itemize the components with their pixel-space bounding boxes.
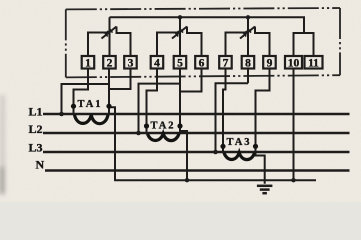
terminal 5 <box>174 56 187 70</box>
meter element 1 (voltage coil) <box>88 17 131 56</box>
voltage tap L2 to terminal 5 <box>139 84 181 133</box>
TA1 S2 tie to ground bus <box>109 105 115 180</box>
terminal 10 <box>285 56 302 70</box>
svg-text:TA3: TA3 <box>227 137 252 148</box>
wire terminal 4 to TA2 S1 <box>147 69 158 126</box>
current transformer TA2 <box>144 121 183 141</box>
svg-text:5: 5 <box>177 58 183 70</box>
svg-text:10: 10 <box>288 58 300 70</box>
wire terminal 10 down to ground bus <box>293 69 295 181</box>
svg-text:N: N <box>36 158 45 172</box>
junction dot ground bus / terminal 10 wire <box>291 178 295 182</box>
line L2 <box>29 122 350 136</box>
wire terminal 1 to TA1 S1 <box>74 69 89 105</box>
wire terminal 2 down to TA1 S2 <box>108 69 110 105</box>
line N <box>36 158 350 172</box>
terminal 9 <box>263 56 276 70</box>
voltage tap L3 to terminal 8 <box>216 83 249 152</box>
terminal 6 <box>195 56 208 70</box>
svg-text:7: 7 <box>223 58 229 70</box>
ground bus <box>114 179 316 181</box>
top voltage bus <box>110 17 305 33</box>
terminal 1 <box>82 56 95 70</box>
line L3 <box>29 140 350 154</box>
junction dot bus/element3 <box>246 15 250 19</box>
line L1 <box>29 104 350 118</box>
wire terminal 6 to TA2 S2 <box>180 69 202 92</box>
ground <box>257 186 273 193</box>
svg-text:6: 6 <box>199 58 205 70</box>
svg-text:TA1: TA1 <box>78 99 103 110</box>
current transformer TA1 <box>71 99 112 124</box>
svg-text:11: 11 <box>308 58 319 70</box>
svg-text:L2: L2 <box>29 122 43 136</box>
terminal 11 <box>305 56 323 70</box>
junction dot ground bus / TA2 tie <box>185 178 189 182</box>
svg-text:TA2: TA2 <box>151 121 176 132</box>
svg-text:L1: L1 <box>29 104 43 118</box>
wire terminal 9 to TA3 S2 <box>256 69 270 146</box>
meter element 2 (voltage coil) <box>157 17 202 56</box>
current transformer TA3 <box>220 137 258 160</box>
terminal 4 <box>151 56 164 70</box>
voltage tap L1 to terminal 2 <box>62 84 110 114</box>
svg-text:4: 4 <box>154 58 160 70</box>
svg-text:1: 1 <box>85 58 91 70</box>
wire terminal 5 down to TA2 S2 <box>179 69 181 126</box>
wire terminal 3 to TA1 S2 <box>109 69 131 90</box>
svg-text:8: 8 <box>245 58 251 70</box>
meter enclosure (dash-dot box) <box>66 8 340 77</box>
TA2 S2 tie to ground bus <box>180 127 187 180</box>
svg-text:9: 9 <box>267 58 273 70</box>
meter element 3 (voltage coil) <box>226 17 270 56</box>
wire terminal 7 to TA3 S1 <box>223 69 226 146</box>
TA3 S2 tie to ground <box>256 148 265 184</box>
terminal 8 <box>242 56 255 70</box>
terminal 3 <box>124 56 137 70</box>
svg-text:2: 2 <box>107 58 113 70</box>
terminal 2 <box>103 56 116 70</box>
svg-text:L3: L3 <box>29 140 43 154</box>
junction dot bus/element2 <box>178 15 182 19</box>
svg-text:3: 3 <box>128 58 134 70</box>
neutral link bridge to terminals 10,11 <box>294 33 314 56</box>
wire terminal 8 down to voltage tap <box>247 69 249 84</box>
terminal 7 <box>219 56 232 70</box>
